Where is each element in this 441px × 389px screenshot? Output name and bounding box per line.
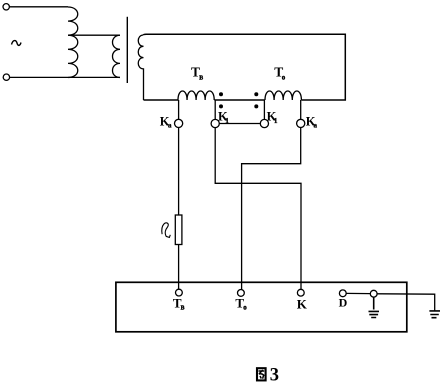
- polarity dot (TB upper): [219, 92, 223, 96]
- wire (resistor to TB terminal): [178, 245, 180, 290]
- wire (source bottom): [10, 76, 120, 78]
- wire (To K1 stub): [263, 100, 265, 119]
- AC source symbol ~: [12, 41, 22, 46]
- polarity dot (TB lower): [219, 104, 223, 108]
- terminal D (calibrator): [339, 290, 346, 297]
- terminal To (calibrator): [238, 290, 245, 297]
- wire (K1-K1 link): [219, 123, 260, 125]
- transformer core: [126, 17, 128, 83]
- wire (D to ground terminal): [346, 292, 370, 294]
- svg-text:B: B: [181, 306, 185, 312]
- caption 图3: [257, 368, 266, 380]
- transformer secondary winding L3: [138, 35, 143, 100]
- wire (left Ka down to resistor): [178, 128, 180, 216]
- AC source terminal (bottom-left): [3, 74, 9, 80]
- polarity dot (To upper): [254, 92, 258, 96]
- terminal Ka of To: [297, 119, 305, 127]
- ground (external): [429, 311, 440, 318]
- wire (right Ka to To terminal): [242, 128, 301, 290]
- calibrator box: [116, 282, 407, 332]
- wire (ground terminal to external ground): [377, 294, 435, 311]
- terminal K1 of TB: [211, 119, 219, 127]
- wire (TB Ka stub): [178, 100, 180, 119]
- AC source terminal (top-left): [3, 4, 9, 10]
- wire (tap of L1 to L2): [68, 34, 120, 36]
- resistor Z: [175, 215, 182, 245]
- svg-text:K: K: [297, 297, 308, 312]
- wire (high-current loop: top, right, bottom edges): [144, 34, 346, 100]
- wire (source top to primary winding): [10, 6, 68, 8]
- CT To primary winding: [265, 91, 301, 100]
- terminal TB (calibrator): [176, 289, 183, 296]
- terminal K1 of To: [260, 119, 268, 127]
- ground terminal (calibrator): [370, 290, 377, 297]
- label Z (resistor): [162, 223, 170, 238]
- svg-text:o: o: [243, 304, 247, 312]
- ground (inside calibrator): [369, 297, 380, 317]
- wire (To Ka stub): [300, 100, 302, 119]
- CT TB primary winding: [178, 91, 214, 100]
- wire (K1 pair to K terminal): [215, 128, 301, 290]
- svg-text:B: B: [199, 76, 203, 82]
- wire (TB K1 stub): [214, 100, 216, 119]
- terminal Ka of TB: [175, 119, 183, 127]
- terminal K (calibrator): [297, 289, 304, 296]
- svg-text:o: o: [282, 74, 286, 82]
- autotransformer primary winding L1: [68, 7, 78, 78]
- svg-text:3: 3: [270, 365, 279, 384]
- polarity dot (To lower): [254, 104, 258, 108]
- transformer winding L2: [113, 35, 121, 77]
- svg-text:a: a: [314, 121, 318, 129]
- svg-text:D: D: [339, 296, 348, 310]
- svg-text:1: 1: [274, 117, 278, 125]
- svg-text:a: a: [168, 121, 172, 129]
